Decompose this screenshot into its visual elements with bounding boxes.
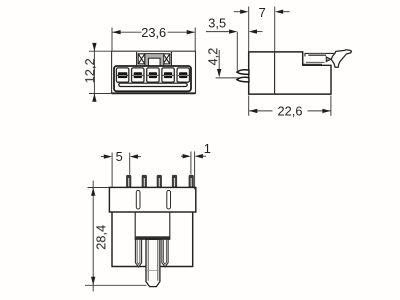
latch arm inner top line <box>308 54 326 56</box>
latch housing vertical right <box>170 52 172 66</box>
leg left <box>135 239 141 267</box>
dimension 5 arrow left <box>101 156 105 158</box>
dimension 1 arrow left <box>181 155 183 157</box>
latch arm tip triangle <box>326 57 331 62</box>
dimension 4,2 extension bottom <box>216 77 245 79</box>
dimension 12,2 line <box>93 44 95 102</box>
pin 4 (bottom view) <box>172 175 177 188</box>
svg-text:4,2: 4,2 <box>205 48 220 66</box>
dimension 22,6 extension left <box>248 96 250 116</box>
solder pin lower (side) <box>237 77 249 82</box>
lower body bottom left segment <box>111 266 146 268</box>
latch hook <box>331 50 351 67</box>
dimension 5 extension left <box>111 153 113 187</box>
front face plate <box>114 66 191 91</box>
dimension 28,4 extension bottom <box>85 284 147 286</box>
contact slit lines <box>117 74 189 76</box>
pole window 2 <box>132 68 144 82</box>
dimension 1 extension left <box>190 152 192 175</box>
latch arm inner shading <box>308 54 326 56</box>
latch arm inner bottom line <box>306 61 325 63</box>
dimension 7 extension right <box>274 7 276 52</box>
dimension 3,5 arrow left <box>206 31 230 33</box>
mounting flange band <box>109 187 195 212</box>
center block <box>135 212 170 239</box>
svg-text:1: 1 <box>204 141 211 156</box>
dimension 22,6 line left segment <box>249 110 272 112</box>
center tab <box>146 239 160 286</box>
dimension 3,5 extension line <box>236 32 238 71</box>
dimension 7 extension left <box>248 7 250 52</box>
pole window 1 <box>116 68 128 82</box>
latch cross-hatched box right <box>163 54 170 64</box>
pole window 5 <box>177 68 189 82</box>
svg-text:7: 7 <box>259 5 266 20</box>
dimension 28,4 line <box>92 181 94 292</box>
dimension 5 extension right <box>129 153 131 175</box>
center tab inner lines <box>147 240 149 281</box>
latch housing vertical left <box>136 52 138 66</box>
lower body bottom right segment <box>160 266 194 268</box>
center tab faint cross line <box>146 270 159 272</box>
side view internal division <box>274 52 276 94</box>
front body bottom thick edge <box>112 92 195 94</box>
latch arm bottom line <box>303 63 322 65</box>
dimension 1 arrow right <box>202 155 206 157</box>
coding slot <box>119 83 187 86</box>
dimension 12,2 extension top <box>89 50 112 52</box>
latch center tab <box>149 58 161 66</box>
contact 3 <box>149 72 157 78</box>
pole window 3 <box>147 68 159 82</box>
contact 4 <box>164 72 172 78</box>
dimension 5 arrow right <box>137 156 141 158</box>
dimension 28,4 extension top <box>88 187 110 189</box>
pin 2 (bottom view) <box>142 175 147 188</box>
svg-text:12,2: 12,2 <box>82 58 97 83</box>
dimension 22,6 line right segment <box>308 110 331 112</box>
flange slot left <box>136 190 140 209</box>
flange slot right <box>167 190 171 209</box>
svg-text:5: 5 <box>116 149 123 164</box>
latch arm top <box>305 53 335 56</box>
lower body left side <box>111 212 113 267</box>
dimension 7 arrow left <box>234 11 241 13</box>
contact 1 <box>118 72 127 78</box>
svg-text:23,6: 23,6 <box>141 25 166 40</box>
leg right <box>162 239 168 267</box>
svg-text:28,4: 28,4 <box>93 225 108 250</box>
dimension 3,5 arrow right <box>256 31 263 33</box>
pin 1 (bottom view) <box>126 175 131 188</box>
contact 2 <box>134 72 142 78</box>
dimension 4,2 line <box>218 50 220 71</box>
pin 5 (bottom view) <box>189 175 194 188</box>
lower body right side <box>192 212 194 267</box>
solder pin upper (side) <box>237 70 249 75</box>
pin 3 (bottom view) <box>157 175 162 188</box>
dimension 22,6 extension right <box>330 96 332 116</box>
dimension 1 extension right <box>194 152 196 190</box>
dimension 23,6 extension line left <box>111 28 113 51</box>
dimension 7 arrow right <box>282 11 289 13</box>
pole window 4 <box>162 68 174 82</box>
side view body outline <box>249 52 331 94</box>
front view body outline <box>112 51 196 93</box>
svg-text:22,6: 22,6 <box>278 103 303 118</box>
center block dark base <box>135 236 169 239</box>
latch center tab shoulder <box>145 54 164 67</box>
dimension 23,6 line right segment with arrow <box>168 31 195 33</box>
dimension 23,6 extension line right <box>194 28 196 51</box>
dimension 23,6 line left segment with arrow <box>112 31 141 33</box>
contact slits (white) <box>119 74 188 76</box>
dimension 12,2 extension bottom <box>89 93 117 95</box>
contact 5 <box>179 72 187 78</box>
svg-text:3,5: 3,5 <box>208 15 226 30</box>
latch cross-hatched box left <box>138 54 145 64</box>
